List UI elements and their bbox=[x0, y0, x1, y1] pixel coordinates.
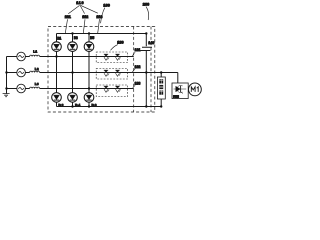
thyristor pair in 133 bbox=[104, 86, 121, 92]
wire phase row1 rail to source bbox=[7, 56, 17, 58]
junction rail row3 bbox=[5, 87, 7, 89]
wire top dc bus bbox=[57, 33, 147, 35]
capacitor C1 bbox=[140, 47, 152, 50]
wire phase row2 rail to source bbox=[7, 72, 17, 74]
svg-text:140: 140 bbox=[148, 41, 154, 45]
svg-text:L3: L3 bbox=[35, 82, 39, 86]
svg-text:112: 112 bbox=[82, 15, 88, 19]
leader 200 bbox=[146, 7, 149, 20]
thyristor module box 132 bbox=[96, 69, 127, 80]
outer dashed box 100 bbox=[48, 27, 155, 113]
inverter symbol bbox=[174, 85, 187, 93]
junction bottom bus filter stem bbox=[160, 105, 162, 107]
svg-text:L2: L2 bbox=[35, 67, 39, 71]
diode D5 bbox=[84, 42, 94, 52]
svg-text:100: 100 bbox=[103, 4, 109, 8]
svg-text:D4: D4 bbox=[75, 103, 80, 107]
junction row1 leg1 bbox=[55, 55, 57, 57]
wire narrow box stems bbox=[160, 73, 162, 107]
leader 112 to leg bbox=[83, 19, 85, 33]
ac source V1 bbox=[17, 52, 26, 61]
inner dashed partition line left bbox=[133, 27, 135, 113]
inductor L3 bbox=[30, 87, 40, 88]
ac source V3 bbox=[17, 84, 26, 93]
svg-text:D6: D6 bbox=[92, 103, 97, 107]
wire source to L1 bbox=[25, 56, 29, 58]
wire phase row3 rail to source bbox=[7, 88, 17, 90]
bridge leg 2 wire bbox=[72, 34, 74, 107]
ground bbox=[3, 94, 10, 97]
leader 111 to leg bbox=[65, 19, 67, 33]
leader fan from 110 to 111 bbox=[68, 5, 79, 13]
svg-text:PWM: PWM bbox=[173, 94, 179, 98]
svg-text:L1: L1 bbox=[33, 50, 37, 54]
filter box glyphs bbox=[159, 79, 163, 94]
svg-text:130: 130 bbox=[117, 41, 123, 45]
wire L3 to bridge row3 bbox=[40, 88, 134, 90]
filter box bbox=[157, 77, 165, 99]
wire source to L3 bbox=[25, 88, 29, 90]
junction rail row2 bbox=[5, 71, 7, 73]
svg-text:132: 132 bbox=[135, 65, 141, 69]
ac source V2 bbox=[17, 68, 26, 77]
leader fan from 110 to 113 bbox=[81, 5, 98, 13]
diode D2 bbox=[52, 93, 62, 103]
thyristor module box 133 bbox=[96, 85, 127, 97]
leader 133 bbox=[132, 85, 135, 88]
svg-text:110: 110 bbox=[76, 1, 83, 5]
inductor L2 bbox=[30, 71, 40, 72]
wire source to L2 bbox=[25, 72, 29, 74]
junction bottom bus cap line bbox=[145, 105, 147, 107]
leader 131 bbox=[132, 52, 135, 56]
junction top bus leg2 bbox=[71, 32, 73, 34]
bridge leg 3 wire bbox=[88, 34, 90, 107]
bridge leg 1 wire bbox=[56, 34, 58, 107]
thyristor pair in 132 bbox=[104, 70, 121, 76]
leader 113 to leg bbox=[98, 19, 100, 33]
junction bottom bus leg3 bbox=[88, 105, 90, 107]
diode D1 bbox=[52, 42, 62, 52]
junction bottom bus leg2 bbox=[71, 105, 73, 107]
svg-text:131: 131 bbox=[135, 48, 141, 52]
svg-text:D5: D5 bbox=[90, 36, 94, 40]
motor M1 bbox=[189, 83, 202, 96]
leader 100 bbox=[101, 8, 105, 24]
junction row3 leg3 bbox=[88, 87, 90, 89]
diode D3 bbox=[68, 42, 78, 52]
inductor L1 bbox=[30, 55, 40, 56]
thyristor module box 131 bbox=[96, 52, 127, 63]
junction mid bus cap line bbox=[145, 71, 147, 73]
wire left neutral rail bbox=[6, 57, 8, 94]
diode D6 bbox=[84, 93, 94, 103]
junction mid bus filter stem bbox=[160, 71, 162, 73]
wire L2 to bridge row2 and mid bus to inverter feed bbox=[40, 72, 178, 74]
leader 130 bbox=[111, 45, 118, 51]
thyristor pair in 131 bbox=[104, 54, 121, 60]
svg-text:200: 200 bbox=[143, 3, 149, 7]
wire bottom dc bus bbox=[57, 106, 162, 108]
svg-text:133: 133 bbox=[135, 81, 141, 85]
svg-text:D2: D2 bbox=[58, 103, 63, 107]
leader 132 bbox=[132, 69, 135, 73]
diode D4 bbox=[68, 93, 78, 103]
wire inverter to motor bbox=[187, 88, 190, 90]
inner dashed partition line right bbox=[150, 27, 152, 113]
junction row2 leg2 bbox=[71, 71, 73, 73]
inverter box U1 bbox=[172, 83, 188, 99]
wire dc link drop bbox=[145, 34, 147, 107]
leader fan from 110 to 112 bbox=[80, 5, 85, 13]
wire inverter feed drop bbox=[177, 73, 179, 84]
junction dots bbox=[5, 32, 162, 107]
wire L1 to bridge row1 bbox=[40, 56, 134, 58]
svg-text:D1: D1 bbox=[57, 36, 61, 40]
svg-text:111: 111 bbox=[65, 15, 71, 19]
junction top bus cap line corner bbox=[145, 32, 147, 34]
junction top bus leg3 bbox=[88, 32, 90, 34]
svg-text:D3: D3 bbox=[74, 36, 78, 40]
